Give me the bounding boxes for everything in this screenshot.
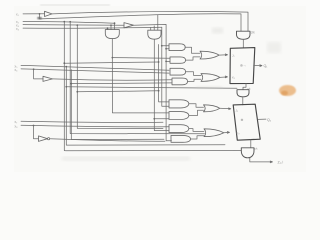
wire A4 output [188, 79, 201, 81]
wire OR4 output arrow [224, 132, 230, 134]
faint pencil ghost 3 [196, 86, 222, 89]
wire T1 output [242, 39, 244, 48]
faint smudge top [40, 4, 110, 5]
junction dot V77 mid [76, 91, 78, 93]
wire V166 tee A2b [166, 60, 170, 62]
AND gate B3 [169, 125, 189, 133]
wire GA output [112, 39, 169, 113]
svg-text:J₁: J₁ [232, 53, 235, 57]
faint pencil ghost 2 [267, 42, 281, 53]
junction dot V66 [65, 86, 67, 88]
orange stain [279, 85, 296, 96]
wire L8 [21, 125, 169, 127]
OR gate OR3 [204, 105, 220, 112]
wire B4 output [191, 136, 205, 139]
AND gate A2 [170, 57, 186, 63]
wire V161 tee A1 [162, 45, 169, 47]
junction dot V166/A2b [165, 61, 167, 63]
wire mid line to A2b [64, 62, 158, 63]
AND gate B1 [169, 100, 189, 108]
flip-flop box FF1 [230, 48, 255, 84]
wire Tr4 output [50, 139, 165, 142]
paper [0, 0, 320, 180]
junction dot GA/A2 [112, 57, 114, 59]
wire FF2 bottom to T3 [250, 140, 252, 148]
vertical bus V70 [70, 22, 204, 134]
junction dot GB/B2 [153, 118, 155, 120]
AND gate B2 [169, 112, 189, 120]
OR gate OR4 [204, 129, 224, 137]
svg-text:clk: clk [251, 31, 255, 35]
OR gate OR2 [201, 74, 220, 82]
AND gate B4 [171, 135, 191, 142]
GA input stubs [108, 23, 115, 29]
wire Tr4 input drop [34, 126, 39, 139]
wire FF1 bottom to T2 [243, 84, 246, 90]
GA stub dots [114, 22, 116, 24]
inverter Tr4 [39, 136, 48, 142]
wire B2 output [189, 110, 204, 115]
buffer Tr1 [45, 11, 53, 16]
wire OR2 output arrow [220, 76, 228, 78]
inverter Tr4 bubble [48, 138, 50, 140]
faint smudge bottom band [62, 157, 190, 161]
wire L1 top input [23, 13, 45, 15]
wire L1 tap drop [40, 14, 242, 32]
faint pencil ghost 1 [212, 28, 223, 34]
vertical bus V71 [71, 70, 164, 140]
junction dot L3 gate stub [110, 24, 112, 26]
svg-text:Q₂: Q₂ [267, 118, 272, 122]
ink blob tap corner [37, 17, 42, 20]
junction dot L3/V77 [76, 24, 78, 26]
wire V166 tee A1b [166, 48, 169, 50]
wire GB tee B2 [154, 118, 169, 120]
vertical bus V66 [66, 67, 225, 146]
wire L1 buffer output to top right [52, 12, 248, 32]
wire B3 output [189, 129, 204, 132]
junction dot L6 tap [33, 68, 35, 70]
flip-flop box FF2 [233, 104, 260, 140]
wire long to T2 [66, 87, 237, 89]
wire B1 output [189, 104, 204, 107]
AND gate T1 clock top [237, 31, 251, 39]
AND gate GB top [148, 30, 161, 39]
AND gate A4 [172, 78, 188, 85]
wire T2 output [242, 97, 244, 105]
wire Tr2 output [134, 24, 172, 140]
AND gate A3 [170, 68, 186, 75]
svg-text:Zₐᵤᵗ: Zₐᵤᵗ [278, 160, 284, 164]
junction dot V166/A1b [165, 48, 167, 50]
buffer Tr3 [43, 76, 53, 81]
wire L4 [23, 26, 162, 29]
wire FF1 Q output arrow [254, 65, 263, 67]
svg-text:x₁: x₁ [16, 13, 19, 17]
wire OR1 output arrow [219, 54, 228, 56]
junction dot L2/V64 [63, 21, 65, 23]
wire L5 [21, 65, 169, 70]
wire L2 [23, 21, 115, 23]
wire A2 output [186, 57, 200, 60]
junction dot V71 [70, 83, 72, 85]
wire A1 output jog [185, 47, 200, 53]
GB input stubs [151, 15, 158, 30]
vertical bus V161 [162, 27, 169, 106]
junction dot L4 stub [107, 27, 109, 29]
buffer Tr2 [124, 23, 134, 28]
wire Tr3 output to A4 [53, 79, 173, 80]
svg-text:⊕: ⊕ [241, 118, 244, 122]
wire L6 [21, 69, 169, 73]
svg-text:⊕→: ⊕→ [240, 64, 246, 68]
vertical bus V77 [77, 25, 163, 129]
vertical bus V64 [64, 22, 241, 151]
wire V71 to A4 lower [71, 82, 172, 85]
AND gate T2 clock mid [237, 90, 249, 97]
AND gate A1 [169, 44, 185, 51]
AND gate GA top [105, 30, 119, 39]
wire L7 [21, 121, 163, 122]
wire mid line to B1 [77, 91, 158, 92]
svg-text:K₁: K₁ [232, 75, 235, 79]
junction dot L8 tap [33, 125, 35, 127]
AND gate T3 clock bottom [241, 148, 254, 158]
wire GA tee to A2 [112, 57, 170, 60]
wire Tr3 input drop [34, 69, 43, 79]
junction dot V64 mid [63, 62, 65, 64]
wire A3 output jog [186, 72, 201, 76]
junction dot V161/A1 [161, 45, 163, 47]
junction dot L5/V66 [65, 66, 67, 68]
junction dot [39, 13, 41, 15]
svg-text:ck: ck [255, 147, 259, 151]
wire OR3 output arrow [220, 108, 231, 110]
wire FF2 Q output [258, 118, 266, 120]
wire L3 [23, 24, 124, 27]
OR gate OR1 [200, 51, 219, 59]
wire GB output [154, 39, 169, 130]
junction dot L2/V70 [69, 21, 71, 23]
wire T3 output to out arrow [250, 158, 273, 163]
